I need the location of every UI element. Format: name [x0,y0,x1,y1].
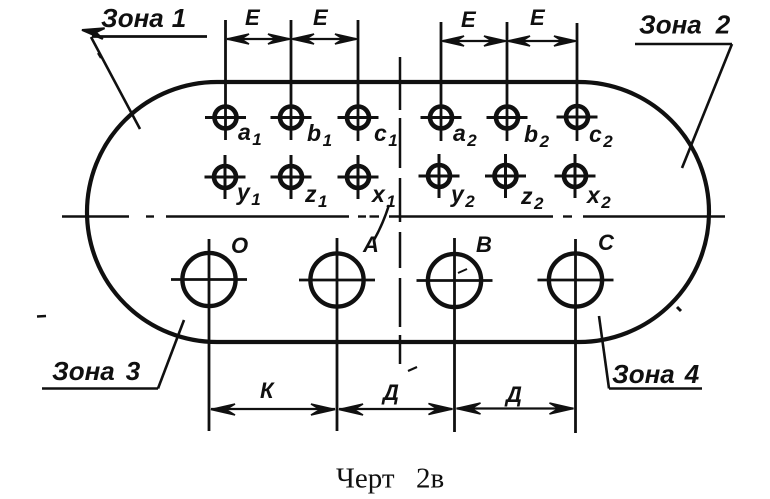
svg-text:E: E [461,7,477,32]
small hole c1 [338,107,379,129]
svg-text:Черт2в: Черт2в [336,463,444,495]
svg-text:Зона4: Зона4 [612,359,700,389]
big hole O [171,253,247,306]
small hole y2 [419,154,460,198]
small hole z2 [485,154,526,198]
svg-text:O: O [231,233,248,258]
svg-text:C: C [598,230,615,255]
zone 1 speck [98,53,101,58]
svg-text:Д: Д [504,382,522,407]
zone 1 underline [92,35,207,38]
small hole b1 [271,107,312,129]
big hole A vertical centerline [336,238,339,431]
dimension E left-1 [227,34,290,44]
big hole C vertical centerline [574,239,577,433]
small hole b2 [487,107,528,129]
extension line col c2 [576,23,579,141]
zone 4 leader diagonal [599,316,609,389]
small hole a1 [205,107,246,129]
small hole z1 [271,155,312,199]
svg-text:Зона1: Зона1 [101,3,186,33]
big hole O vertical centerline [208,239,211,431]
small hole a2 [421,107,462,129]
small hole x2 [555,154,596,198]
big hole B [417,254,493,307]
small hole x1 [338,155,379,199]
plate outline (stadium/obround) [87,82,709,342]
small tick inside B [458,269,467,273]
stray tick near bottom of vertical centerline [408,367,417,371]
small hole y1 [205,155,246,199]
tick above A [374,205,389,240]
extension line col b1 [290,20,293,140]
svg-text:Зона3: Зона3 [52,356,141,386]
dimension E right-1 [442,36,506,46]
zone 3 underline [42,387,158,390]
big hole B vertical centerline [453,238,456,432]
speck near bottom-right arc [677,307,681,311]
svg-text:E: E [245,5,261,30]
extension line col a1 [224,20,227,140]
zone 1 arrowhead [82,28,105,39]
dimension K [211,404,335,415]
dimension D2 [457,403,574,414]
zone 1 leader diagonal [91,37,140,129]
small hole c2 [557,106,598,128]
horizontal centerline (dash-dot) [62,215,725,217]
svg-text:Зона2: Зона2 [639,10,731,40]
svg-text:B: B [476,232,492,257]
big hole C [538,253,614,306]
svg-text:К: К [260,378,275,403]
big hole A [299,253,375,306]
zone 4 underline [609,387,702,390]
extension line col b2 [506,22,509,141]
stray dash left [37,315,46,318]
extension line col a2 [440,22,443,141]
dimension E left-2 [292,34,357,44]
svg-text:E: E [530,5,546,30]
zone 3 leader diagonal [158,320,184,389]
zone 2 underline [635,43,732,46]
extension line col c1 [357,20,360,141]
vertical centerline (dashed) [399,57,402,364]
dimension D1 [339,404,453,416]
svg-text:E: E [313,5,329,30]
svg-text:Д: Д [381,380,399,405]
zone 2 leader diagonal [682,44,732,168]
dimension E right-2 [508,36,576,46]
